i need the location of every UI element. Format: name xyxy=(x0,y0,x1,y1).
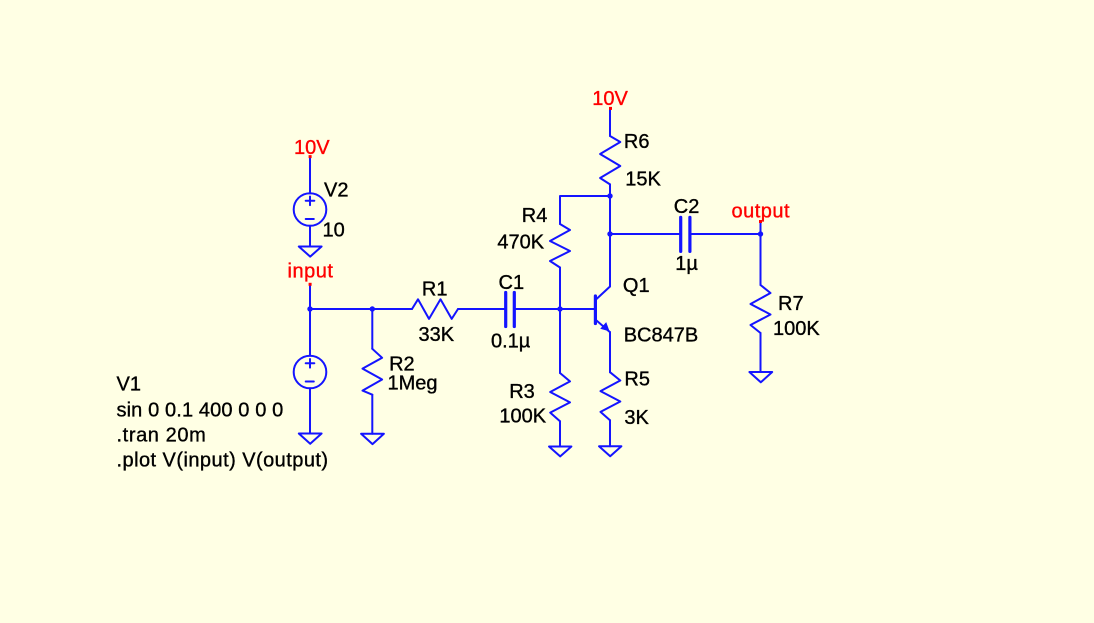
ground below R3 xyxy=(549,447,571,457)
svg-text:.plot V(input) V(output): .plot V(input) V(output) xyxy=(117,450,329,472)
svg-text:33K: 33K xyxy=(419,324,455,346)
node R6-R4 junction xyxy=(607,193,612,198)
wire C1 to Q1 base xyxy=(516,308,594,310)
svg-text:V2: V2 xyxy=(324,180,348,202)
ground below V1 xyxy=(299,434,322,444)
flag dot 10V top xyxy=(609,107,612,110)
svg-text:100K: 100K xyxy=(773,318,820,340)
wire R2 top xyxy=(371,309,373,349)
flag dot input xyxy=(309,283,312,286)
voltage source V1 xyxy=(294,356,327,389)
svg-text:C1: C1 xyxy=(499,272,525,294)
wire R6 bottom xyxy=(609,184,611,196)
svg-text:0.1µ: 0.1µ xyxy=(491,331,531,353)
svg-text:C2: C2 xyxy=(674,196,700,218)
svg-text:3K: 3K xyxy=(624,407,649,429)
svg-text:10: 10 xyxy=(323,220,345,242)
wire main horizontal input-R1 xyxy=(310,308,412,310)
svg-text:100K: 100K xyxy=(499,406,546,428)
svg-text:output: output xyxy=(732,201,791,223)
svg-text:R6: R6 xyxy=(624,131,650,153)
wire input node to V1 xyxy=(309,309,311,356)
svg-text:sin 0 0.1 400 0 0 0: sin 0 0.1 400 0 0 0 xyxy=(117,400,284,422)
ground below R7 xyxy=(749,372,772,382)
wire output stub xyxy=(760,223,762,234)
svg-text:1µ: 1µ xyxy=(675,253,698,275)
svg-text:R3: R3 xyxy=(509,381,535,403)
wire output to R7 xyxy=(760,234,762,285)
node collector junction xyxy=(607,231,612,236)
wire 10V to R6 xyxy=(609,109,611,136)
wire emitter to R5 xyxy=(609,332,611,372)
svg-text:R7: R7 xyxy=(778,293,804,315)
wire C2 to output xyxy=(691,233,760,235)
node output junction xyxy=(758,231,763,236)
wire collector vertical xyxy=(609,196,611,287)
ground below R2 xyxy=(361,434,384,444)
node base junction xyxy=(557,306,562,311)
node R2 junction xyxy=(370,306,375,311)
wire V2 top stub xyxy=(309,157,311,194)
svg-text:R4: R4 xyxy=(522,205,548,227)
svg-text:R1: R1 xyxy=(422,279,448,301)
capacitor C2 xyxy=(679,217,682,251)
wire V2 bottom xyxy=(309,226,311,247)
wire node to R4 branch xyxy=(560,196,610,224)
wire R7 bottom xyxy=(760,333,762,372)
resistor R1 xyxy=(412,299,458,319)
wire R4 to R3 xyxy=(559,268,561,374)
voltage source V2 xyxy=(294,193,327,226)
svg-text:BC847B: BC847B xyxy=(624,325,699,347)
wire R3 bottom xyxy=(559,421,561,446)
resistor R6 xyxy=(600,136,620,184)
wire R1 to C1 xyxy=(458,308,504,310)
resistor R7 xyxy=(751,285,771,333)
svg-text:470K: 470K xyxy=(497,232,544,254)
ground below R5 xyxy=(599,446,621,456)
resistor R3 xyxy=(550,373,570,421)
ground below V2 xyxy=(299,247,322,257)
svg-text:10V: 10V xyxy=(294,137,330,159)
flag dot 10V left xyxy=(309,155,312,158)
svg-text:V1: V1 xyxy=(117,374,141,396)
capacitor C1 xyxy=(504,293,507,327)
wire R2 bottom xyxy=(371,395,373,434)
svg-text:15K: 15K xyxy=(625,169,661,191)
flag dot output xyxy=(759,220,762,223)
svg-text:.tran 20m: .tran 20m xyxy=(117,425,207,447)
svg-text:10V: 10V xyxy=(592,88,628,110)
wire input stub xyxy=(309,285,311,309)
svg-text:1Meg: 1Meg xyxy=(388,373,438,395)
wire R5 bottom xyxy=(609,420,611,446)
svg-text:R5: R5 xyxy=(624,369,650,391)
transistor Q1 xyxy=(597,287,611,300)
svg-text:input: input xyxy=(288,261,334,283)
node input junction xyxy=(307,306,312,311)
resistor R4 xyxy=(550,224,570,268)
wire V1 bottom xyxy=(309,388,311,433)
svg-text:Q1: Q1 xyxy=(623,275,650,297)
resistor R5 xyxy=(601,372,621,420)
wire collector node to C2 xyxy=(610,233,679,235)
resistor R2 xyxy=(363,349,383,395)
